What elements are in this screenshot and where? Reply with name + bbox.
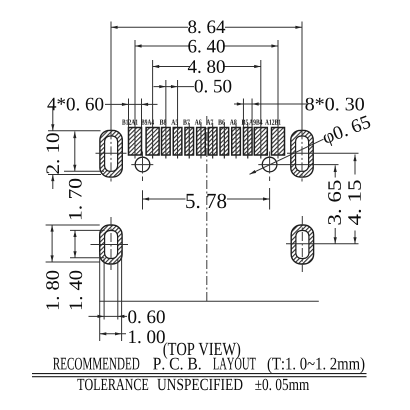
dimension 1.70 line	[74, 132, 76, 172]
dim text 8*0.30	[305, 98, 364, 111]
extension line lower oval bottom	[46, 261, 100, 263]
lower left oval horizontal centerline	[91, 244, 129, 246]
dimension 3.65 line top	[334, 165, 336, 177]
lower left oval centerline	[110, 217, 112, 270]
pad label B7	[183, 120, 190, 125]
left plated hole circle	[135, 157, 150, 172]
dimension 0.60 line	[89, 315, 128, 317]
dimension 6.40 line	[135, 45, 278, 47]
dim text 4.80	[188, 60, 225, 73]
extension line pad4 center	[177, 80, 179, 159]
extension line right circle for 5.78	[269, 188, 271, 210]
upper left oval pad (shell through-slot)	[100, 130, 122, 177]
extension line pad2 center	[152, 60, 154, 159]
arrowheads	[51, 26, 357, 336]
main vertical centerline	[206, 116, 208, 302]
dim text 4*0.60	[47, 98, 103, 111]
extension line right oval center	[301, 22, 303, 131]
extension line lower oval right edge down	[121, 252, 123, 341]
right circle cross horizontal + 3.65 extension	[258, 164, 338, 166]
left oval horizontal centerline	[96, 152, 127, 154]
pad A8	[232, 128, 241, 156]
right oval horizontal centerline + 4.15 extension	[287, 152, 359, 154]
double rule	[32, 374, 367, 377]
pad A6	[197, 128, 206, 156]
dim text 4.15	[348, 180, 361, 225]
pad label A7	[206, 120, 213, 125]
dim text 1.70	[69, 179, 82, 219]
dim text 8.64	[188, 20, 225, 33]
dimension 4.80 line	[153, 66, 261, 68]
dim text 1.80	[46, 271, 59, 309]
extension line upper oval top	[48, 130, 101, 132]
upper right oval centerline	[301, 130, 303, 181]
extension line left oval center	[110, 22, 112, 131]
pad B5	[243, 128, 252, 156]
pad A7	[208, 128, 217, 156]
leader line phi 0.65	[250, 139, 324, 174]
pad B6	[220, 128, 229, 156]
pad label A9B4	[249, 120, 262, 125]
pad label B12A1	[122, 120, 138, 125]
extension line pad1 center	[134, 40, 136, 159]
dimension 4.15 line top	[354, 155, 356, 175]
pad label B9A4	[141, 120, 154, 125]
extension line upper oval bottom outer	[48, 174, 101, 176]
dim text 0.60	[128, 310, 165, 323]
dimension 1.00 line	[100, 333, 126, 335]
pad A5	[173, 128, 182, 156]
pad label A8	[230, 120, 237, 125]
pad A12B1	[272, 128, 285, 156]
extension line lower hole left edge down	[103, 259, 105, 320]
board edge line	[99, 300, 319, 302]
right circle centerline	[269, 152, 271, 174]
caption UNSPECIFIED	[157, 379, 242, 391]
dim text 1.40	[69, 271, 82, 309]
dimension 5.78 line	[143, 198, 270, 200]
extension line pad1 right edge	[141, 99, 143, 128]
dim text 3.65	[328, 180, 341, 224]
left circle centerline	[142, 152, 144, 174]
dimension 8.64 line	[111, 26, 302, 28]
pad label A6	[195, 120, 202, 125]
pad label B6	[218, 120, 225, 125]
dimension 8*0.30 line	[234, 103, 307, 105]
pad center tick lines	[189, 123, 248, 159]
lower left oval pad	[100, 225, 122, 264]
dimension 2.10 top tail	[52, 107, 54, 131]
dim text phi 0.65	[321, 115, 372, 148]
upper right oval pad (shell through-slot)	[291, 130, 313, 177]
pad B12A1	[129, 128, 142, 156]
extension line lower right oval center	[286, 243, 359, 245]
dimension 3.65 line bottom	[334, 228, 336, 244]
left circle cross horizontal	[131, 164, 153, 166]
pad B8	[162, 128, 171, 156]
center lines dash-dot	[111, 116, 302, 302]
extension line lower hole right edge down	[117, 259, 119, 320]
dim text 5.78	[186, 194, 226, 209]
caption T:1.0-1.2mm	[268, 357, 365, 373]
caption 0.05mm	[255, 379, 309, 391]
extension line pad3 center	[165, 80, 167, 159]
lower right oval pad	[291, 225, 313, 264]
extension line lower hole bottom	[70, 257, 104, 259]
extension line upper oval hole bottom	[64, 170, 104, 172]
dimension 2.10 bottom tail	[52, 175, 54, 190]
dimension 1.40 line	[74, 230, 76, 257]
caption P.C.B.	[153, 358, 201, 370]
pad label B5	[242, 120, 249, 125]
pad B7	[185, 128, 194, 156]
pad A9B4	[254, 128, 267, 156]
extension line lower hole top	[70, 229, 105, 231]
pad label B8	[160, 120, 167, 125]
pad B9A4	[146, 128, 159, 156]
dim text 6.40	[188, 40, 225, 53]
dim text 0.50	[195, 80, 232, 93]
pad label A5	[171, 120, 178, 125]
lower right oval centerline	[301, 216, 303, 272]
dimension 4*0.60 line	[105, 103, 158, 105]
dimension 1.80 line	[51, 225, 53, 262]
caption RECOMMENDED	[53, 358, 139, 370]
dimension 0.50 line	[154, 86, 195, 88]
extension line pad10 left edge	[242, 99, 244, 128]
right plated hole circle	[262, 157, 277, 172]
dimension 4.15 line bottom	[354, 231, 356, 244]
extension line pad10 right edge	[251, 99, 253, 128]
extension line left circle for 5.78	[142, 190, 144, 209]
upper left oval centerline	[110, 130, 112, 181]
extension line pad11 center	[260, 60, 262, 159]
pad label A12B1	[265, 120, 281, 125]
extension line pad1 left edge	[128, 99, 130, 128]
caption LAYOUT	[213, 358, 256, 370]
extension line lower oval left edge down	[99, 252, 101, 341]
dim text 1.00	[129, 330, 165, 343]
pad centerlines overlay	[135, 127, 278, 159]
extension line lower oval top	[46, 224, 100, 226]
caption TOP VIEW	[163, 342, 240, 359]
pad row: 12 SMT pads hatched	[129, 128, 285, 156]
dim text 2.10	[46, 133, 59, 173]
extension line pad12 center	[277, 40, 279, 159]
caption TOLERANCE	[77, 379, 148, 391]
